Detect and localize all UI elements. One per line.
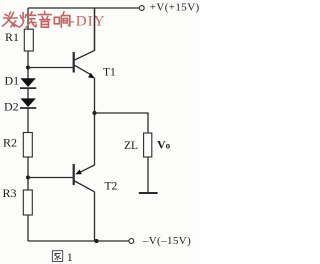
svg-text:R2: R2 [3,135,17,149]
svg-text:R1: R1 [5,30,19,44]
svg-text:R3: R3 [3,186,17,200]
terminal +V [139,6,144,11]
svg-text:T2: T2 [105,180,118,192]
transistor T2 [74,113,95,241]
resistor R3 [23,190,32,215]
svg-text:D1: D1 [5,74,20,88]
wire R3 to bottom rail [27,215,29,241]
svg-text:+V(+15V): +V(+15V) [150,2,200,14]
wire R2 to R3 [27,157,29,190]
wire base T1 [28,67,73,69]
wire ZL to ground [147,157,149,193]
svg-text:1: 1 [67,250,73,264]
wire top rail +V [28,7,139,9]
diode D1 [20,78,35,87]
resistor R2 [23,133,32,158]
resistor R1 [24,29,33,51]
svg-text:ZL: ZL [124,140,138,152]
node base T1 junction [26,66,30,70]
watermark text red [3,11,70,27]
node bottom junction [94,239,98,243]
svg-text:D2: D2 [4,99,19,113]
svg-text:-DIY: -DIY [70,14,106,30]
wire output to ZL [95,113,149,133]
transistor T1 [74,8,95,113]
wire D2 to R2 [27,108,29,132]
node output junction [92,111,96,115]
wire base T2 [28,177,73,179]
wire bottom rail -V [28,240,129,242]
wire D1 to D2 [27,89,29,99]
diode D2 [20,98,35,107]
ground [139,192,158,194]
svg-text:Vo: Vo [157,137,171,151]
wire R1 to D1 [27,51,29,79]
wire T1 collector over watermark [94,8,96,51]
node base T2 junction [26,176,30,180]
svg-text:T1: T1 [103,66,116,78]
wire left branch top (rail to R1) [27,8,29,29]
caption figure 1 [52,251,62,262]
resistor ZL [144,133,152,157]
terminal -V [129,239,134,244]
svg-text:–V(–15V): –V(–15V) [142,235,191,247]
